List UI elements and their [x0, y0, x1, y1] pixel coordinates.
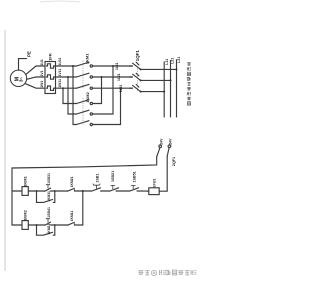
svg-text:1KM11: 1KM11: [47, 191, 51, 202]
svg-text:1FR: 1FR: [48, 53, 53, 61]
svg-text:1SB41: 1SB41: [47, 207, 51, 218]
svg-text:1L11: 1L11: [115, 63, 119, 70]
svg-text:1W1: 1W1: [40, 81, 44, 88]
svg-text:1KM11: 1KM11: [70, 211, 74, 222]
svg-text:1SB31: 1SB31: [47, 173, 51, 184]
svg-text:1KM21: 1KM21: [47, 224, 51, 235]
svg-text:1SB1: 1SB1: [96, 173, 100, 182]
svg-text:1KM21: 1KM21: [70, 176, 74, 187]
svg-text:1W11: 1W11: [58, 79, 62, 88]
svg-text:L21: L21: [171, 58, 175, 64]
svg-text:24V: 24V: [159, 138, 163, 145]
svg-text:1L21: 1L21: [117, 73, 121, 81]
svg-text:1SB51: 1SB51: [132, 171, 136, 182]
svg-text:1KM2: 1KM2: [85, 91, 90, 102]
svg-text:1U11: 1U11: [58, 57, 62, 65]
svg-text:3~: 3~: [19, 76, 24, 82]
svg-text:1SB21: 1SB21: [111, 171, 115, 182]
svg-text:24V: 24V: [169, 138, 173, 145]
svg-text:2QF1: 2QF1: [172, 157, 176, 166]
svg-text:1KM1: 1KM1: [22, 175, 27, 186]
svg-text:L31: L31: [177, 57, 181, 63]
svg-text:1KM2: 1KM2: [22, 209, 27, 220]
svg-text:1V1: 1V1: [40, 70, 44, 76]
svg-text:1L31: 1L31: [119, 85, 123, 93]
svg-text:1U1: 1U1: [40, 59, 44, 65]
svg-text:1V11: 1V11: [58, 69, 62, 77]
svg-text:1QF1: 1QF1: [135, 50, 140, 62]
svg-text:L11: L11: [165, 59, 169, 65]
svg-text:1FU1: 1FU1: [153, 179, 157, 188]
svg-text:1KM1: 1KM1: [84, 53, 89, 64]
svg-text:PE: PE: [26, 51, 31, 57]
